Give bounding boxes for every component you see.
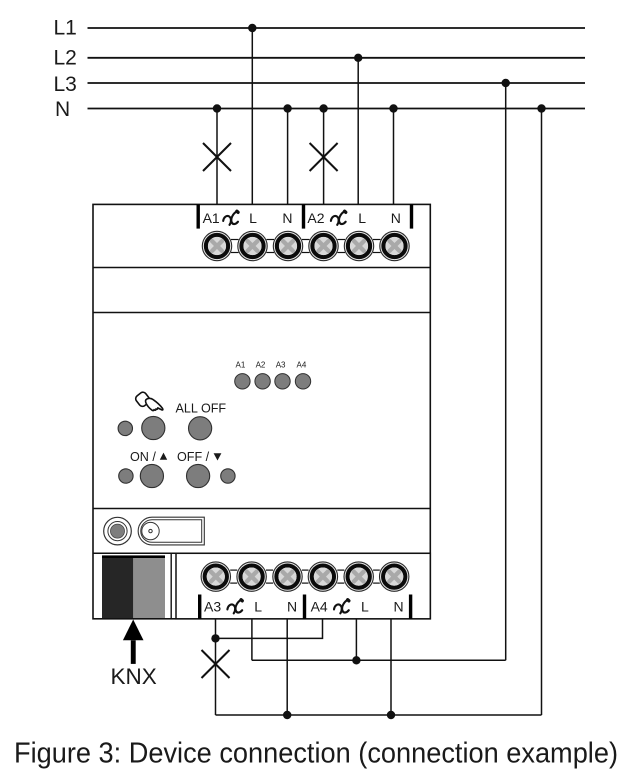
device separator line 2 xyxy=(93,312,430,314)
screw terminal N3 xyxy=(273,562,302,591)
KNX arrow xyxy=(123,620,144,641)
screw terminal A1 xyxy=(202,231,231,260)
bottom terminal bar 3 xyxy=(409,595,412,619)
wire L1 drop xyxy=(251,28,253,204)
bottom screw bridges xyxy=(230,570,380,583)
svg-text:A4: A4 xyxy=(297,361,307,370)
hand icon xyxy=(134,391,163,411)
node N right junction xyxy=(537,104,545,112)
KNX block dark half xyxy=(102,558,133,618)
device outline xyxy=(93,204,430,618)
node N-A2 xyxy=(319,104,327,112)
device separator line 1 xyxy=(93,267,430,269)
svg-text:N: N xyxy=(282,210,292,226)
triangle down xyxy=(214,453,222,460)
button on row2 xyxy=(140,464,163,487)
load symbol A2 xyxy=(331,211,346,225)
wire L2 drop xyxy=(357,58,359,205)
button all-off xyxy=(189,417,212,440)
svg-text:L: L xyxy=(358,210,366,226)
lamp X1 xyxy=(203,143,231,171)
LED A3 xyxy=(275,374,290,389)
svg-text:L: L xyxy=(361,599,369,615)
screw terminal L2 xyxy=(344,231,373,260)
node N3 bottom xyxy=(283,711,291,719)
top terminal bar 2 xyxy=(302,204,305,228)
node L4 tie xyxy=(352,656,360,664)
wire A3-A4 tie xyxy=(216,619,323,639)
svg-text:A3: A3 xyxy=(204,599,221,615)
wire A2 drop from N xyxy=(323,109,325,205)
screw terminal A3 xyxy=(201,562,230,591)
screw terminal N1 xyxy=(273,231,302,260)
screw terminal N2 xyxy=(380,231,409,260)
KNX block gray half xyxy=(133,558,165,618)
svg-text:A1: A1 xyxy=(203,210,220,226)
svg-text:L1: L1 xyxy=(54,17,77,40)
wire N2 drop xyxy=(393,109,395,205)
button prog row1 xyxy=(142,416,165,439)
svg-text:KNX: KNX xyxy=(111,664,157,689)
node N-N2 xyxy=(389,104,397,112)
bus line L2 xyxy=(88,57,586,59)
svg-text:L3: L3 xyxy=(54,73,77,96)
wire N right riser xyxy=(541,109,543,716)
svg-text:A2: A2 xyxy=(256,361,266,370)
LED A2 xyxy=(255,374,270,389)
screw terminal A2 xyxy=(309,231,338,260)
bottom terminal bar 1 xyxy=(198,595,201,619)
top screw bridges xyxy=(231,240,381,253)
device separator line 3 xyxy=(93,508,430,510)
svg-text:N: N xyxy=(55,98,70,121)
wire L4 drop xyxy=(355,619,357,661)
bottom terminal box xyxy=(176,553,430,619)
label plate hole xyxy=(142,522,159,539)
svg-text:A1: A1 xyxy=(236,361,246,370)
button small row1 xyxy=(118,421,132,435)
LED A1 xyxy=(235,374,250,389)
svg-text:Figure 3: Device connection (c: Figure 3: Device connection (connection … xyxy=(14,738,618,770)
load symbol A1 xyxy=(223,211,238,225)
screw terminal L3 xyxy=(237,562,266,591)
screw terminal L4 xyxy=(344,562,373,591)
node A3 tie xyxy=(211,634,219,642)
button small row2b xyxy=(221,469,235,483)
wire N1 drop xyxy=(287,109,289,205)
lamp X2 xyxy=(310,143,338,171)
svg-text:OFF /: OFF / xyxy=(177,450,210,464)
svg-text:A2: A2 xyxy=(307,210,324,226)
wire A1 drop from N xyxy=(216,109,218,205)
node L1 junction xyxy=(248,24,256,32)
bus line L1 xyxy=(88,27,586,29)
triangle up xyxy=(160,453,167,460)
LED A4 xyxy=(295,374,310,389)
node L2 junction xyxy=(354,54,362,62)
label plate inner xyxy=(141,520,202,543)
button off row2 xyxy=(187,464,210,487)
programming button led xyxy=(111,524,125,538)
programming button outer xyxy=(104,517,132,545)
svg-text:A3: A3 xyxy=(276,361,286,370)
svg-text:N: N xyxy=(393,599,403,615)
svg-text:L2: L2 xyxy=(54,47,77,70)
device separator line 4 xyxy=(93,552,430,554)
node N-N1 xyxy=(283,104,291,112)
button small row2 xyxy=(119,469,133,483)
label plate hole dot xyxy=(149,529,152,532)
svg-text:A4: A4 xyxy=(311,599,328,615)
node N-A1 xyxy=(213,104,221,112)
wire A3 drop xyxy=(215,619,217,715)
screw terminal A4 xyxy=(308,562,337,591)
svg-text:ALL OFF: ALL OFF xyxy=(176,402,227,416)
svg-text:L: L xyxy=(254,599,262,615)
bus line L3 xyxy=(88,82,586,84)
label plate outer xyxy=(138,517,204,545)
bottom terminal bar 2 xyxy=(303,595,306,619)
node L3 junction xyxy=(502,79,510,87)
wire L3 group drop xyxy=(251,619,253,661)
screw terminal N4 xyxy=(380,562,409,591)
KNX block top bar xyxy=(102,555,165,558)
wire L tie xyxy=(252,659,506,661)
node N4 bottom xyxy=(387,711,395,719)
svg-text:N: N xyxy=(391,210,401,226)
KNX compartment wall xyxy=(170,553,172,619)
lamp X3 xyxy=(202,650,230,678)
wire N4 drop xyxy=(390,619,392,715)
svg-text:N: N xyxy=(287,599,297,615)
svg-text:L: L xyxy=(249,210,257,226)
svg-text:ON /: ON / xyxy=(130,450,156,464)
top terminal bar 1 xyxy=(197,204,200,228)
wire N tie bottom xyxy=(216,714,542,716)
load symbol A4 xyxy=(334,600,349,614)
bus line N xyxy=(88,108,586,110)
programming button mid xyxy=(108,522,127,541)
wire N3 drop xyxy=(286,619,288,715)
wire L3 right riser xyxy=(505,83,507,660)
screw terminal L1 xyxy=(238,231,267,260)
load symbol A3 xyxy=(227,600,242,614)
top terminal bar 3 xyxy=(410,204,413,228)
